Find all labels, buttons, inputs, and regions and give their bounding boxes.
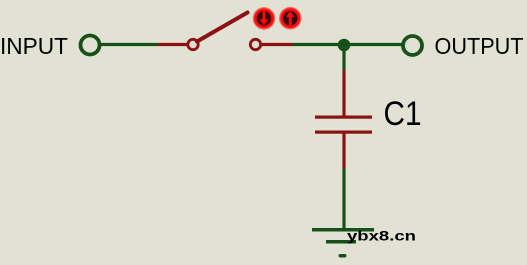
switch SW1 lever [197, 13, 248, 42]
actuator icon down-arrow [254, 8, 275, 29]
ground bar 2 [326, 240, 356, 244]
svg-text:C1: C1 [384, 95, 422, 133]
switch SW1 pin right [262, 43, 292, 46]
wire INPUT to switch [101, 43, 158, 46]
ground bar 3 [339, 254, 347, 258]
switch SW1 contact left [188, 39, 198, 49]
wire junction down [342, 45, 345, 71]
actuator icon up-arrow [280, 8, 301, 29]
terminal OUTPUT [403, 36, 422, 55]
switch SW1 contact right [250, 39, 260, 49]
svg-text:OUTPUT: OUTPUT [435, 33, 524, 59]
capacitor C1 pin top [342, 71, 345, 116]
junction node [338, 39, 351, 52]
ground bar 1 [312, 228, 374, 232]
terminal INPUT [81, 36, 100, 55]
wire switch to junction [292, 43, 344, 46]
wire junction to OUTPUT [344, 43, 402, 46]
capacitor C1 pin bottom [342, 134, 345, 169]
svg-text:INPUT: INPUT [0, 33, 68, 59]
capacitor C1 plate bottom [315, 131, 372, 134]
svg-text:ybx8.cn: ybx8.cn [347, 228, 416, 244]
wire capacitor to ground [342, 168, 345, 229]
switch SW1 pin left [158, 43, 187, 46]
capacitor C1 plate top [315, 116, 372, 119]
